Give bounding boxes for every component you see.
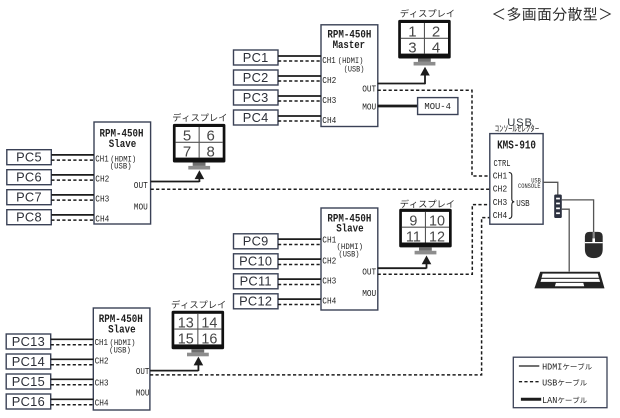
svg-text:CH1: CH1 bbox=[322, 55, 336, 66]
PC PC11 bbox=[234, 274, 279, 289]
wire KMS console to hub bbox=[543, 182, 558, 194]
svg-text:CH3: CH3 bbox=[493, 197, 508, 208]
display monitor D1 bbox=[398, 20, 451, 66]
svg-text:3: 3 bbox=[408, 40, 416, 57]
PC PC15 bbox=[6, 374, 51, 389]
svg-text:CH4: CH4 bbox=[95, 398, 109, 409]
svg-text:CH4: CH4 bbox=[322, 296, 336, 307]
HDMI wire Master OUT to display D1 bbox=[378, 83, 425, 85]
receiver MOU-4 bbox=[418, 98, 458, 115]
HDMI wire PC3 to Master CH3 bbox=[278, 95, 321, 97]
svg-text:PC8: PC8 bbox=[16, 210, 42, 225]
svg-text:Master: Master bbox=[333, 40, 366, 52]
USB wire PC6 to Slave1 CH2 bbox=[51, 179, 94, 181]
svg-text:KMS-910: KMS-910 bbox=[497, 138, 536, 152]
svg-text:MOU: MOU bbox=[362, 101, 376, 112]
LAN wire Master MOU to MOU-4 bbox=[378, 105, 418, 108]
PC PC2 bbox=[234, 70, 279, 85]
svg-text:PC4: PC4 bbox=[243, 110, 269, 125]
PC PC1 bbox=[234, 50, 279, 65]
svg-text:10: 10 bbox=[429, 214, 445, 230]
display monitor D2 bbox=[173, 124, 226, 170]
PC PC8 bbox=[7, 210, 52, 225]
svg-text:PC6: PC6 bbox=[16, 170, 42, 185]
HDMI wire PC5 to Slave1 CH1 bbox=[51, 154, 94, 156]
svg-text:CH3: CH3 bbox=[95, 193, 109, 204]
keyboard bbox=[534, 272, 604, 289]
svg-text:MOU-4: MOU-4 bbox=[424, 101, 451, 112]
wire hub to mouse bbox=[562, 200, 594, 233]
svg-text:USB: USB bbox=[516, 198, 530, 209]
svg-text:OUT: OUT bbox=[362, 267, 376, 278]
legend LAN cable bbox=[521, 398, 541, 401]
svg-text:PC11: PC11 bbox=[240, 274, 272, 289]
svg-text:PC14: PC14 bbox=[12, 354, 45, 369]
HDMI wire PC4 to Master CH4 bbox=[278, 115, 321, 117]
svg-text:USB: USB bbox=[542, 378, 558, 389]
svg-text:Slave: Slave bbox=[108, 324, 136, 336]
legend box bbox=[513, 357, 607, 408]
svg-text:OUT: OUT bbox=[134, 180, 148, 191]
HDMI wire PC16 to Slave3 CH4 bbox=[51, 398, 94, 400]
HDMI wire PC13 to Slave3 CH1 bbox=[51, 338, 94, 340]
svg-text:CH3: CH3 bbox=[95, 378, 109, 389]
display label D2 bbox=[173, 113, 226, 122]
HDMI wire Slave3 OUT to display D4 bbox=[150, 370, 198, 372]
svg-text:CTRL: CTRL bbox=[494, 158, 511, 169]
svg-text:CH4: CH4 bbox=[322, 115, 336, 126]
USB wire Master OUT to KMS CH1 bbox=[378, 90, 490, 176]
display monitor D4 bbox=[172, 311, 225, 357]
USB wire PC9 to Slave2 CH1 bbox=[278, 244, 322, 246]
display label D3 bbox=[401, 199, 454, 208]
USB wire Slave2 OUT to KMS CH3 bbox=[378, 205, 490, 275]
USB wire Slave1 OUT to KMS CH2 bbox=[151, 188, 490, 190]
svg-text:4: 4 bbox=[432, 40, 440, 57]
svg-text:PC2: PC2 bbox=[243, 70, 269, 85]
svg-text:CH2: CH2 bbox=[95, 173, 109, 184]
svg-text:7: 7 bbox=[183, 144, 191, 161]
svg-text:(USB): (USB) bbox=[109, 346, 131, 356]
HDMI wire PC9 to Slave2 CH1 bbox=[278, 238, 321, 240]
HDMI wire PC12 to Slave2 CH4 bbox=[278, 298, 321, 300]
svg-text:PC15: PC15 bbox=[12, 374, 45, 389]
svg-text:PC16: PC16 bbox=[12, 394, 45, 409]
PC PC3 bbox=[234, 90, 279, 105]
svg-text:(USB): (USB) bbox=[110, 162, 132, 172]
display label D4 bbox=[172, 300, 225, 309]
svg-text:(USB): (USB) bbox=[344, 64, 365, 74]
USB wire PC7 to Slave1 CH3 bbox=[51, 199, 94, 201]
USB wire PC15 to Slave3 CH3 bbox=[51, 384, 94, 386]
svg-text:(USB): (USB) bbox=[339, 250, 360, 260]
PC PC16 bbox=[6, 394, 51, 409]
svg-text:Slave: Slave bbox=[109, 139, 137, 151]
svg-text:MOU: MOU bbox=[136, 387, 150, 398]
svg-text:13: 13 bbox=[178, 316, 194, 332]
HDMI wire PC2 to Master CH2 bbox=[278, 75, 321, 77]
USB wire PC4 to Master CH4 bbox=[278, 120, 322, 122]
USB wire PC5 to Slave1 CH1 bbox=[51, 159, 94, 161]
HDMI wire PC7 to Slave1 CH3 bbox=[51, 194, 94, 196]
HDMI wire PC8 to Slave1 CH4 bbox=[51, 214, 94, 216]
PC PC10 bbox=[234, 254, 279, 269]
svg-text:CH1: CH1 bbox=[95, 337, 109, 348]
USB wire PC16 to Slave3 CH4 bbox=[51, 404, 94, 406]
svg-text:6: 6 bbox=[207, 128, 215, 145]
USB wire PC11 to Slave2 CH3 bbox=[278, 284, 322, 286]
svg-text:PC3: PC3 bbox=[243, 90, 269, 105]
svg-text:MOU: MOU bbox=[134, 202, 148, 213]
svg-text:PC10: PC10 bbox=[239, 254, 272, 269]
svg-text:CH3: CH3 bbox=[322, 95, 336, 106]
PC PC6 bbox=[7, 170, 52, 185]
HDMI wire PC6 to Slave1 CH2 bbox=[51, 174, 94, 176]
svg-text:CH3: CH3 bbox=[322, 276, 336, 287]
svg-text:CH1: CH1 bbox=[322, 234, 336, 245]
PC PC5 bbox=[7, 150, 52, 165]
USB wire Slave3 OUT to KMS CH4 bbox=[150, 218, 490, 375]
USB wire PC14 to Slave3 CH2 bbox=[51, 364, 94, 366]
svg-text:9: 9 bbox=[409, 214, 417, 230]
HDMI wire Slave2 OUT to display D3 bbox=[378, 267, 427, 269]
mouse bbox=[585, 232, 603, 258]
PC PC12 bbox=[234, 294, 279, 309]
display label D1 bbox=[401, 9, 454, 18]
USB wire PC3 to Master CH3 bbox=[278, 100, 322, 102]
PC PC7 bbox=[7, 190, 52, 205]
switcher RPM-450H Slave S2 bbox=[321, 208, 378, 310]
switcher RPM-450H Slave S3 bbox=[93, 308, 150, 410]
svg-text:CONSOLE: CONSOLE bbox=[518, 183, 541, 190]
svg-text:CH2: CH2 bbox=[493, 184, 508, 195]
HDMI wire PC15 to Slave3 CH3 bbox=[51, 378, 94, 380]
svg-text:1: 1 bbox=[408, 24, 416, 41]
HDMI wire PC14 to Slave3 CH2 bbox=[51, 358, 94, 360]
usb hub bbox=[554, 195, 562, 219]
selector KMS-910 bbox=[490, 134, 543, 225]
svg-text:11: 11 bbox=[406, 230, 421, 246]
USB wire PC1 to Master CH1 bbox=[278, 60, 322, 62]
HDMI wire PC1 to Master CH1 bbox=[278, 55, 321, 57]
svg-text:5: 5 bbox=[183, 128, 191, 145]
switcher RPM-450H Slave S1 bbox=[94, 122, 151, 224]
svg-text:PC12: PC12 bbox=[239, 294, 272, 309]
svg-text:MOU: MOU bbox=[362, 288, 376, 299]
legend USB cable bbox=[519, 381, 539, 383]
switcher RPM-450H Master U1 bbox=[321, 25, 378, 127]
svg-text:PC7: PC7 bbox=[16, 190, 42, 205]
USB wire PC13 to Slave3 CH1 bbox=[51, 344, 94, 346]
HDMI wire Slave1 OUT to display D2 bbox=[151, 181, 200, 183]
PC PC13 bbox=[6, 334, 51, 349]
svg-text:PC13: PC13 bbox=[12, 334, 45, 349]
svg-text:16: 16 bbox=[201, 331, 217, 347]
svg-text:14: 14 bbox=[201, 316, 217, 332]
PC PC4 bbox=[234, 110, 279, 125]
svg-text:CH2: CH2 bbox=[95, 356, 109, 367]
PC PC9 bbox=[234, 234, 279, 249]
svg-text:8: 8 bbox=[207, 144, 215, 161]
USB wire PC12 to Slave2 CH4 bbox=[278, 304, 322, 306]
svg-text:OUT: OUT bbox=[362, 84, 376, 95]
svg-text:LAN: LAN bbox=[542, 395, 557, 406]
HDMI wire PC11 to Slave2 CH3 bbox=[278, 278, 321, 280]
svg-text:HDMI: HDMI bbox=[542, 362, 562, 373]
svg-text:Slave: Slave bbox=[336, 224, 364, 236]
brace CH1-CH4 USB bbox=[509, 173, 515, 219]
svg-text:15: 15 bbox=[178, 331, 194, 347]
svg-text:PC9: PC9 bbox=[243, 234, 269, 249]
svg-text:CH1: CH1 bbox=[493, 170, 508, 181]
svg-text:CH2: CH2 bbox=[322, 75, 336, 86]
svg-text:OUT: OUT bbox=[136, 366, 150, 377]
legend HDMI cable bbox=[519, 365, 539, 367]
svg-text:PC1: PC1 bbox=[243, 50, 269, 65]
svg-text:CH2: CH2 bbox=[322, 256, 336, 267]
PC PC14 bbox=[6, 354, 51, 369]
svg-text:CH4: CH4 bbox=[95, 213, 109, 224]
USB wire PC2 to Master CH2 bbox=[278, 80, 322, 82]
svg-text:2: 2 bbox=[432, 24, 440, 41]
USB wire PC10 to Slave2 CH2 bbox=[278, 264, 322, 266]
svg-text:CH4: CH4 bbox=[493, 210, 508, 221]
display monitor D3 bbox=[399, 209, 452, 255]
title 多画面分散型 bbox=[493, 7, 611, 21]
USB wire PC8 to Slave1 CH4 bbox=[51, 219, 94, 221]
svg-text:CH1: CH1 bbox=[95, 154, 109, 165]
wire hub to keyboard bbox=[562, 209, 569, 271]
HDMI wire PC10 to Slave2 CH2 bbox=[278, 258, 321, 260]
svg-text:PC5: PC5 bbox=[16, 150, 42, 165]
svg-text:12: 12 bbox=[429, 230, 445, 246]
